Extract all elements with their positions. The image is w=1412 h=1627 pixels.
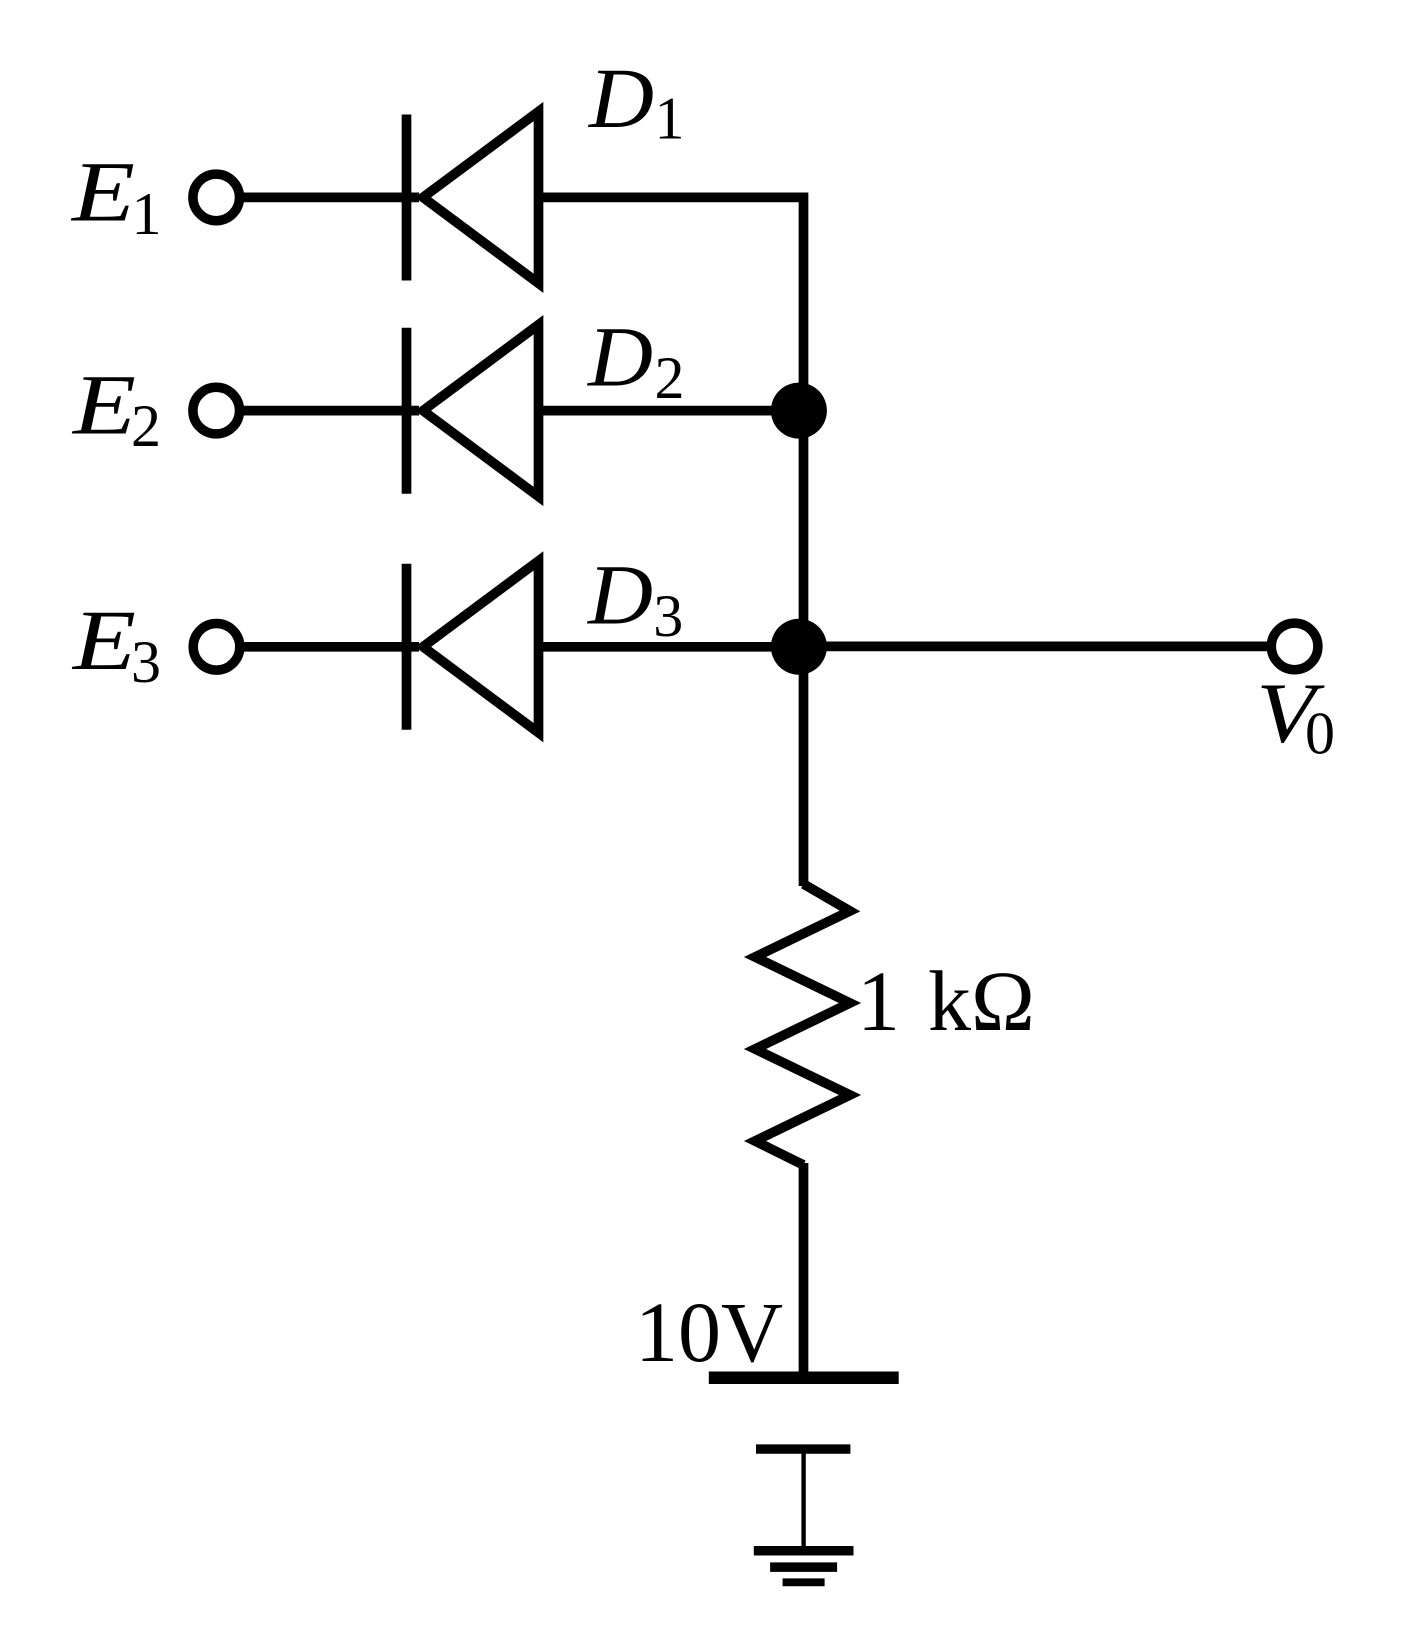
wire D2 anode to bus	[541, 406, 799, 416]
wire E3 to D3 cathode	[240, 642, 419, 652]
node E1 terminal	[193, 174, 240, 221]
wire D1 anode to bus corner, then bus down	[541, 197, 804, 886]
svg-text:2: 2	[655, 345, 685, 411]
wire E2 to D2 cathode	[240, 406, 420, 416]
svg-text:3: 3	[653, 583, 683, 649]
wire D3 anode to bus	[541, 642, 799, 652]
svg-text:1: 1	[655, 86, 685, 152]
ground	[754, 1546, 854, 1556]
svg-text:kΩ: kΩ	[928, 953, 1035, 1049]
svg-text:D: D	[587, 546, 653, 642]
svg-text:1: 1	[132, 181, 162, 247]
svg-text:E: E	[71, 357, 136, 453]
wire output node to V0 terminal	[799, 642, 1271, 652]
wire plate to ground	[801, 1449, 805, 1551]
diode D3 cathode bar	[402, 564, 412, 730]
node E2 terminal	[193, 387, 240, 434]
wire resistor to 10V bar	[799, 1163, 809, 1375]
svg-text:D: D	[587, 309, 653, 405]
junction dot node B (output node)	[771, 619, 827, 675]
svg-text:3: 3	[131, 629, 161, 695]
node E3 terminal	[193, 624, 240, 671]
wire E1 to D1 cathode	[240, 193, 420, 203]
resistor R1 zigzag	[755, 884, 850, 1165]
diode D2 cathode bar	[402, 328, 412, 494]
10V supply bar	[709, 1371, 899, 1384]
svg-text:0: 0	[1305, 701, 1335, 767]
junction dot node A	[771, 383, 827, 439]
svg-text:2: 2	[131, 393, 161, 459]
svg-text:D: D	[588, 50, 654, 146]
diode D1 triangle	[423, 112, 539, 284]
svg-text:10V: 10V	[635, 1284, 783, 1380]
svg-text:1: 1	[857, 953, 900, 1049]
node V0 terminal	[1271, 623, 1318, 670]
svg-text:E: E	[70, 144, 135, 240]
diode D1 cathode bar	[402, 115, 412, 281]
diode D3 triangle	[423, 561, 539, 733]
battery lower plate	[756, 1444, 850, 1453]
svg-text:E: E	[71, 592, 136, 688]
diode D2 triangle	[423, 325, 539, 497]
